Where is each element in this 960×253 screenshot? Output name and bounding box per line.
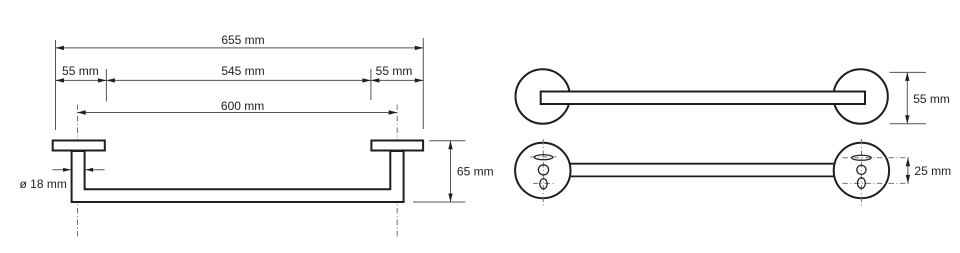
svg-text:655 mm: 655 mm: [221, 33, 264, 47]
svg-text:600 mm: 600 mm: [221, 99, 264, 113]
svg-text:ø 18 mm: ø 18 mm: [20, 177, 67, 191]
svg-text:65 mm: 65 mm: [457, 164, 494, 178]
svg-text:55 mm: 55 mm: [913, 92, 950, 106]
svg-text:545 mm: 545 mm: [221, 64, 264, 78]
svg-text:55 mm: 55 mm: [376, 64, 413, 78]
svg-text:55 mm: 55 mm: [62, 64, 99, 78]
svg-text:25 mm: 25 mm: [914, 164, 951, 178]
